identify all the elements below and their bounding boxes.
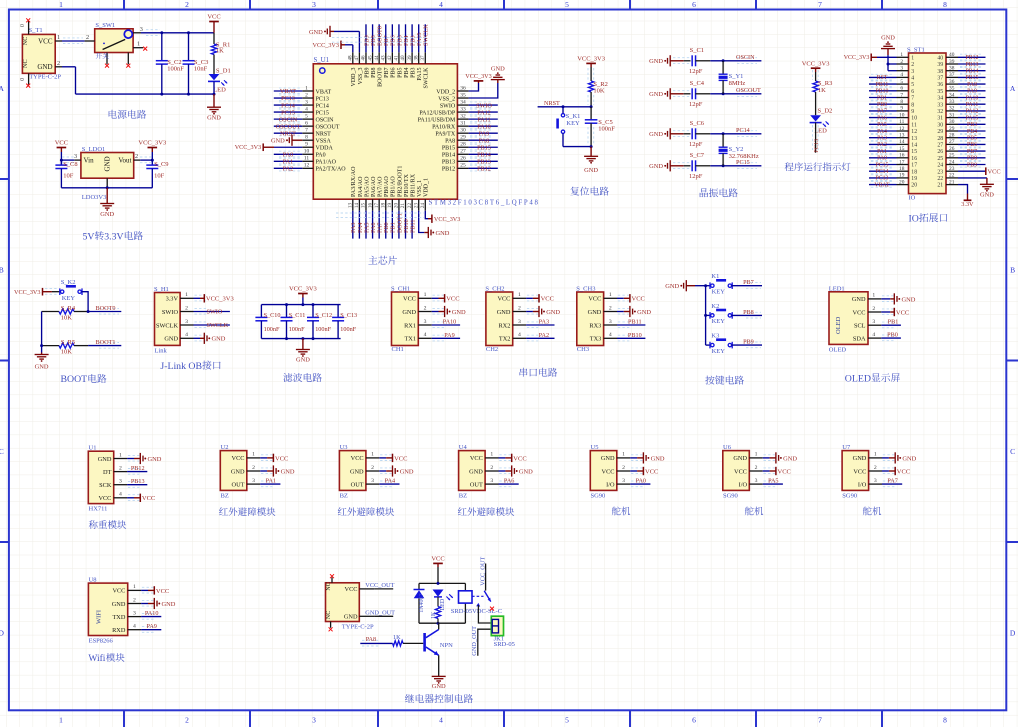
switch S_SW1 [85, 22, 144, 64]
LED1 pin 1 GND [852, 293, 894, 304]
ground GND LDO [100, 188, 114, 218]
svg-text:SWIO: SWIO [440, 103, 456, 109]
wire net PA4 [357, 211, 364, 239]
svg-text:PA2/TX/AO: PA2/TX/AO [316, 167, 347, 173]
wire net PA4 (ST1 pin 12) [869, 128, 897, 135]
svg-text:31: 31 [460, 121, 466, 127]
svg-text:VCC_3V3: VCC_3V3 [14, 289, 40, 296]
power flag VCC_3V3 (indicator) [802, 60, 830, 81]
wire net VBAT [274, 88, 303, 95]
svg-text:5: 5 [900, 79, 903, 85]
wire net PB3 [410, 24, 417, 52]
no-connect flag relay T top [330, 574, 334, 578]
svg-text:PA0: PA0 [877, 156, 887, 162]
crystal S_Y1 8MHz [719, 61, 746, 94]
svg-text:PC14: PC14 [876, 169, 889, 175]
svg-text:VBAT: VBAT [874, 182, 890, 188]
svg-text:VCC: VCC [896, 309, 909, 316]
svg-text:PB13: PB13 [477, 159, 491, 166]
pushbutton S_K1 KEY [558, 107, 581, 147]
svg-text:OLED: OLED [845, 373, 871, 384]
module U2 BZ [220, 444, 247, 500]
svg-text:GND: GND [400, 468, 414, 475]
svg-text:3: 3 [133, 610, 136, 616]
U1 top pin 48 VDD_3 [348, 52, 358, 86]
svg-text:100nF: 100nF [340, 326, 356, 333]
svg-text:2: 2 [135, 153, 138, 160]
svg-text:PA10: PA10 [443, 319, 457, 326]
wire net PB5 (ST1 pin 28) [958, 135, 986, 142]
svg-text:GND: GND [665, 283, 679, 290]
svg-text:TX2: TX2 [499, 336, 511, 343]
svg-text:12: 12 [911, 129, 917, 135]
svg-text:VBAT: VBAT [280, 88, 296, 95]
svg-text:2: 2 [119, 465, 122, 471]
svg-text:2: 2 [133, 597, 136, 603]
svg-text:PB9: PB9 [743, 339, 754, 346]
wire net OSCIN [673, 54, 761, 64]
svg-text:1: 1 [119, 452, 122, 458]
svg-text:SWCLK: SWCLK [424, 67, 430, 89]
svg-text:S_CH1: S_CH1 [391, 286, 410, 293]
svg-text:38: 38 [949, 66, 955, 72]
svg-text:PA2: PA2 [539, 332, 549, 339]
svg-text:S_C9: S_C9 [154, 161, 168, 168]
wire net PB14 (ST1 pin 38) [958, 68, 986, 75]
U2 pin 3 OUT [232, 478, 273, 489]
wire net PA3 [350, 211, 357, 239]
section title 红外避障模块 (U3) [338, 507, 347, 515]
svg-text:5V: 5V [83, 231, 95, 242]
wire net PB11 [410, 211, 417, 239]
power flag VCC at ST1 pin 23 [958, 167, 1001, 175]
svg-text:GND_OUT: GND_OUT [471, 626, 478, 656]
svg-text:2: 2 [518, 305, 521, 311]
ground flag (crystal row) [649, 160, 684, 171]
svg-text:GND: GND [402, 309, 416, 316]
svg-text:13: 13 [348, 203, 354, 209]
U1 left pin 8 VSSA [302, 135, 331, 145]
capacitor S_C7 12pF [684, 152, 711, 180]
svg-text:S_R4: S_R4 [61, 305, 76, 312]
section title 称重模块 [89, 520, 98, 529]
svg-text:4: 4 [133, 624, 136, 630]
svg-text:14: 14 [354, 203, 360, 209]
svg-text:BOOT: BOOT [61, 374, 88, 385]
svg-text:42: 42 [387, 55, 393, 61]
power flag VCC (LDO input) [55, 140, 68, 165]
S_CH3 pin 3 RX3 [589, 319, 629, 330]
U1 right pin 29 PA8 [445, 135, 469, 145]
svg-text:CH2: CH2 [486, 346, 498, 353]
U1 left pin 2 PC13 [302, 92, 329, 102]
svg-text:PA15: PA15 [417, 68, 423, 81]
wire net SWIO [469, 102, 498, 109]
svg-text:OSCOUT: OSCOUT [276, 123, 301, 130]
S_CH1 pin 1 VCC [403, 292, 444, 303]
U1 bottom pin 22 PB11/RX [407, 173, 417, 210]
capacitor S_C9 10F [146, 159, 168, 188]
section title 晶振电路 [700, 188, 708, 197]
svg-text:PB12: PB12 [442, 167, 455, 173]
svg-text:S_SW1: S_SW1 [95, 22, 115, 29]
svg-text:1: 1 [911, 55, 914, 61]
svg-text:30: 30 [460, 128, 466, 134]
wire net PB0 [383, 211, 390, 239]
svg-text:2: 2 [185, 0, 189, 9]
no-connect flag T1 bottom pin [26, 84, 30, 88]
wire net PA0 [630, 477, 650, 484]
svg-text:24: 24 [420, 203, 426, 209]
svg-text:CH1: CH1 [392, 346, 404, 353]
power flag VCC [526, 294, 554, 303]
svg-text:2: 2 [609, 305, 612, 311]
wire net SWCLK [194, 322, 230, 329]
svg-text:U8: U8 [89, 576, 97, 583]
wire filter top rail [261, 303, 340, 306]
svg-text:GND_OUT: GND_OUT [365, 609, 395, 616]
capacitor S_C4 12pF [684, 80, 711, 108]
svg-text:BOOT1: BOOT1 [96, 339, 116, 346]
svg-text:VBAT: VBAT [316, 89, 332, 95]
svg-text:PA9: PA9 [967, 89, 977, 95]
svg-text:PA9: PA9 [146, 623, 156, 630]
S_H1 pin 2 SWIO [162, 305, 206, 316]
LED1 pin 3 SCL [854, 319, 894, 330]
wire net SWIO [194, 309, 230, 316]
svg-text:39: 39 [937, 62, 943, 68]
svg-text:VCC: VCC [897, 468, 910, 475]
power flag VCC_3V3 (reset) [577, 56, 605, 81]
svg-text:HX711: HX711 [89, 506, 108, 513]
svg-text:GND: GND [497, 309, 511, 316]
svg-text:2: 2 [305, 92, 308, 98]
svg-text:GND: GND [519, 468, 533, 475]
svg-text:PB3: PB3 [411, 68, 417, 78]
wire net PB4 [403, 24, 410, 52]
svg-text:PB7: PB7 [967, 149, 977, 155]
ground GND BOOT [35, 353, 49, 371]
U1 bottom pin 16 PA6/AO [367, 176, 377, 211]
svg-text:25: 25 [460, 163, 466, 169]
svg-text:PA3/RX/AO: PA3/RX/AO [351, 166, 357, 197]
svg-text:OUT: OUT [351, 481, 364, 488]
no-connect flag relay common [490, 607, 494, 611]
U3 pin 1 VCC [351, 452, 392, 463]
section title 继电器控制电路 [405, 694, 414, 703]
connector TYPE-C-2P (relay power) [325, 577, 374, 630]
power flag VCC [260, 454, 288, 463]
svg-text:2: 2 [900, 59, 903, 65]
svg-text:3: 3 [755, 478, 758, 484]
wire net PA7 (ST1 pin 9) [869, 108, 897, 115]
wire net PB0 [881, 331, 901, 338]
svg-text:OLED: OLED [835, 316, 842, 334]
svg-text:29: 29 [937, 129, 943, 135]
wire net PA15 (ST1 pin 31) [958, 115, 986, 122]
svg-text:S_K1: S_K1 [566, 113, 581, 120]
module U4 BZ [459, 444, 486, 500]
U1 top pin 43 PB7 [380, 52, 390, 78]
svg-text:GND: GND [98, 456, 112, 463]
svg-text:1K: 1K [393, 634, 401, 641]
svg-text:PC13: PC13 [316, 96, 329, 102]
wire net PB15 (ST1 pin 37) [958, 74, 986, 81]
svg-text:6: 6 [692, 0, 696, 9]
svg-text:PB14: PB14 [442, 153, 455, 159]
terminal JK1 SRD-05 [491, 616, 515, 648]
no-connect flag relay T bottom [329, 627, 333, 631]
wire net PA7 [377, 211, 384, 239]
svg-text:GND: GND [649, 58, 663, 65]
display module LED1 OLED [829, 285, 868, 353]
ground flag (crystal row) [649, 88, 684, 99]
svg-text:PB13: PB13 [442, 160, 455, 166]
U4 pin 2 GND [469, 465, 511, 476]
svg-text:IO: IO [909, 194, 916, 201]
svg-text:1: 1 [57, 34, 60, 41]
svg-text:12: 12 [304, 163, 310, 169]
MCU U1 STM32F103C8T6_LQFP48 [313, 57, 539, 207]
svg-text:PB4: PB4 [967, 129, 977, 135]
svg-text:9: 9 [911, 109, 914, 115]
svg-text:3: 3 [874, 478, 877, 484]
svg-text:GND: GND [649, 163, 663, 170]
ground GND at U1 pin 35 VSS_2 [469, 66, 506, 98]
svg-text:RX3: RX3 [589, 322, 601, 329]
S_CH2 pin 4 TX2 [499, 332, 539, 343]
svg-text:40: 40 [400, 55, 406, 61]
S_CH1 pin 2 GND [402, 305, 444, 316]
svg-text:10: 10 [899, 112, 905, 118]
ground flag GND [526, 306, 560, 317]
U1 right pin 26 PB13 [442, 156, 469, 166]
svg-text:C: C [0, 447, 4, 456]
U4 pin 1 VCC [470, 452, 511, 463]
svg-text:S_C1: S_C1 [690, 47, 704, 54]
svg-text:32: 32 [937, 109, 943, 115]
svg-text:I/O: I/O [739, 481, 748, 488]
svg-text:PA1: PA1 [877, 149, 887, 155]
svg-text:VCC: VCC [431, 556, 444, 563]
power flag VCC_3V3 at U1 pin 24 VDD_1 [425, 211, 460, 224]
U8 pin 4 RXD [112, 624, 153, 635]
svg-text:2: 2 [57, 60, 60, 67]
svg-text:19: 19 [899, 173, 905, 179]
section title 串口电路 [520, 368, 528, 377]
svg-text:J-Link OB: J-Link OB [160, 361, 202, 372]
svg-text:12pF: 12pF [689, 141, 703, 148]
svg-text:GND: GND [649, 91, 663, 98]
wire net PA1 [260, 477, 280, 484]
svg-text:PB9: PB9 [967, 162, 977, 168]
svg-text:OSCOUT: OSCOUT [736, 87, 761, 94]
svg-text:38: 38 [937, 69, 943, 75]
section title 舵机 (U5) [612, 507, 621, 516]
svg-text:GND: GND [271, 138, 285, 145]
svg-text:B: B [0, 265, 4, 274]
svg-text:36: 36 [949, 79, 955, 85]
svg-text:BOOT0: BOOT0 [96, 305, 116, 312]
wire net PC13 [274, 95, 303, 102]
U2 pin 2 GND [231, 465, 273, 476]
svg-text:15: 15 [361, 203, 367, 209]
connector S_H1 J-Link [154, 286, 180, 355]
svg-text:S_T1: S_T1 [29, 27, 43, 34]
module U8 ESP8266 [88, 576, 127, 644]
svg-text:VCC: VCC [588, 296, 601, 303]
ground flag (crystal row) [649, 55, 684, 66]
svg-text:3: 3 [609, 319, 612, 325]
wire net PA1 (ST1 pin 15) [869, 148, 897, 155]
wire net PA12 (ST1 pin 32) [958, 108, 986, 115]
svg-text:1N4007: 1N4007 [419, 593, 425, 612]
U2 pin 1 VCC [232, 452, 273, 463]
svg-text:5: 5 [911, 82, 914, 88]
power flag VCC_3V3 at H1 pin 1 [194, 294, 234, 303]
svg-text:PA10: PA10 [966, 95, 979, 101]
svg-text:PB13: PB13 [131, 478, 145, 485]
svg-text:32: 32 [949, 106, 955, 112]
svg-text:18: 18 [911, 169, 917, 175]
U1 top pin 38 PA15 [413, 52, 423, 80]
svg-text:10: 10 [911, 116, 917, 122]
svg-text:GND: GND [344, 614, 358, 621]
U1 right pin 32 PA11/USB/DM [418, 114, 469, 124]
wire net PB5 [396, 24, 403, 52]
svg-text:2: 2 [185, 305, 188, 311]
svg-text:2: 2 [872, 306, 875, 312]
svg-text:GND: GND [584, 167, 598, 174]
wire net PA8 [360, 636, 392, 646]
pushbutton K3 KEY [706, 333, 733, 355]
ground GND at ST1 pins 2,3 [881, 35, 897, 71]
svg-text:6: 6 [900, 86, 903, 92]
resistor S_R2 10K [588, 68, 608, 107]
svg-text:D: D [0, 628, 4, 637]
svg-text:33: 33 [937, 102, 943, 108]
svg-text:3: 3 [518, 319, 521, 325]
svg-text:GND: GND [546, 309, 560, 316]
svg-text:PA15: PA15 [966, 115, 979, 121]
frame row letters [0, 84, 1016, 638]
U1 left pin 10 PA0 [302, 149, 325, 159]
svg-text:20: 20 [899, 179, 905, 185]
S_CH1 pin 4 TX1 [404, 332, 444, 343]
svg-text:PC13: PC13 [281, 95, 295, 102]
svg-text:10F: 10F [63, 172, 73, 179]
U8 pin 2 GND [112, 597, 154, 608]
svg-text:BOOT0: BOOT0 [378, 68, 384, 87]
svg-text:VCC: VCC [602, 468, 615, 475]
wire net PB13 [127, 478, 147, 485]
svg-text:S_H1: S_H1 [154, 286, 169, 293]
wire net PB6 [390, 24, 397, 52]
svg-text:SWIO: SWIO [162, 309, 179, 316]
S_CH2 pin 1 VCC [497, 292, 538, 303]
S_CH1 pin 3 RX1 [404, 319, 444, 330]
wire net BOOT1 [88, 339, 121, 348]
svg-text:VCC: VCC [112, 588, 125, 595]
svg-text:D: D [1010, 628, 1016, 637]
svg-text:32: 32 [460, 114, 466, 120]
svg-text:VCC: VCC [446, 296, 459, 303]
svg-text:15: 15 [899, 146, 905, 152]
svg-text:PA2: PA2 [877, 142, 887, 148]
ground flag GND [763, 452, 798, 463]
module U7 SG90 [842, 444, 869, 500]
svg-text:PB14: PB14 [966, 69, 979, 75]
svg-text:VCC: VCC [988, 169, 1001, 176]
svg-text:PA12: PA12 [966, 109, 979, 115]
wire net PA10 (ST1 pin 34) [958, 94, 986, 101]
wire net PB8 (ST1 pin 25) [958, 155, 986, 162]
svg-text:36: 36 [937, 82, 943, 88]
S_CH3 pin 1 VCC [588, 292, 629, 303]
svg-text:U5: U5 [591, 444, 599, 451]
svg-text:41: 41 [394, 55, 400, 61]
wire net PA2 [526, 332, 554, 339]
wire net PA6 [499, 477, 519, 484]
wire net PB10 [617, 332, 645, 339]
svg-text:47: 47 [354, 55, 360, 61]
svg-text:6: 6 [911, 89, 914, 95]
svg-text:8: 8 [943, 0, 947, 9]
svg-text:SWCLK: SWCLK [156, 322, 178, 329]
svg-text:K3: K3 [711, 333, 719, 340]
connector S_ST1 IO header [907, 47, 946, 202]
U6 pin 3 I/O [739, 478, 776, 489]
ground flag GND [260, 465, 295, 476]
U1 left pin 1 VBAT [302, 85, 331, 95]
svg-text:1: 1 [490, 452, 493, 458]
svg-text:0: 0 [20, 78, 26, 81]
svg-text:STM32F103C8T6_LQFP48: STM32F103C8T6_LQFP48 [429, 199, 540, 206]
svg-text:3: 3 [371, 478, 374, 484]
svg-text:GND: GND [881, 35, 895, 42]
svg-text:S_K2: S_K2 [61, 279, 76, 286]
svg-text:GND: GND [212, 336, 226, 343]
svg-text:3: 3 [305, 99, 308, 105]
svg-text:RST: RST [877, 75, 888, 81]
wire net PB8 [732, 309, 762, 318]
relay frame SRD-05VDC-SL-C [419, 582, 502, 625]
relay switch [472, 557, 491, 602]
ground flag GND [127, 453, 162, 464]
ground flag at LED1 pin 1 [881, 293, 915, 304]
svg-text:PB1/AO: PB1/AO [391, 176, 397, 197]
svg-text:VCC: VCC [232, 455, 245, 462]
svg-text:3.3V: 3.3V [961, 201, 974, 208]
relay coil [459, 591, 473, 603]
U1 right pin 31 PA10/RX [432, 121, 469, 131]
svg-text:34: 34 [460, 99, 466, 105]
power flag VCC_3V3 at ST1 pin 1 [844, 54, 897, 62]
U1 bottom pin 14 PA4/AO [354, 176, 364, 211]
U1 top pin 41 PB5 [394, 52, 404, 78]
svg-text:PB15: PB15 [442, 146, 455, 152]
svg-text:SWCLK: SWCLK [207, 322, 229, 329]
svg-text:VCC: VCC [470, 455, 483, 462]
svg-text:10nF: 10nF [194, 66, 208, 73]
svg-text:27: 27 [937, 143, 943, 149]
U1 bottom pin 20 PB2/BOOT1 [394, 166, 404, 211]
U5 pin 2 VCC [602, 465, 643, 476]
svg-text:S_CH2: S_CH2 [485, 286, 504, 293]
wire net PB1 [390, 211, 397, 239]
capacitor S_C10 100nF [255, 305, 280, 339]
capacitor S_C6 12pF [684, 120, 711, 148]
